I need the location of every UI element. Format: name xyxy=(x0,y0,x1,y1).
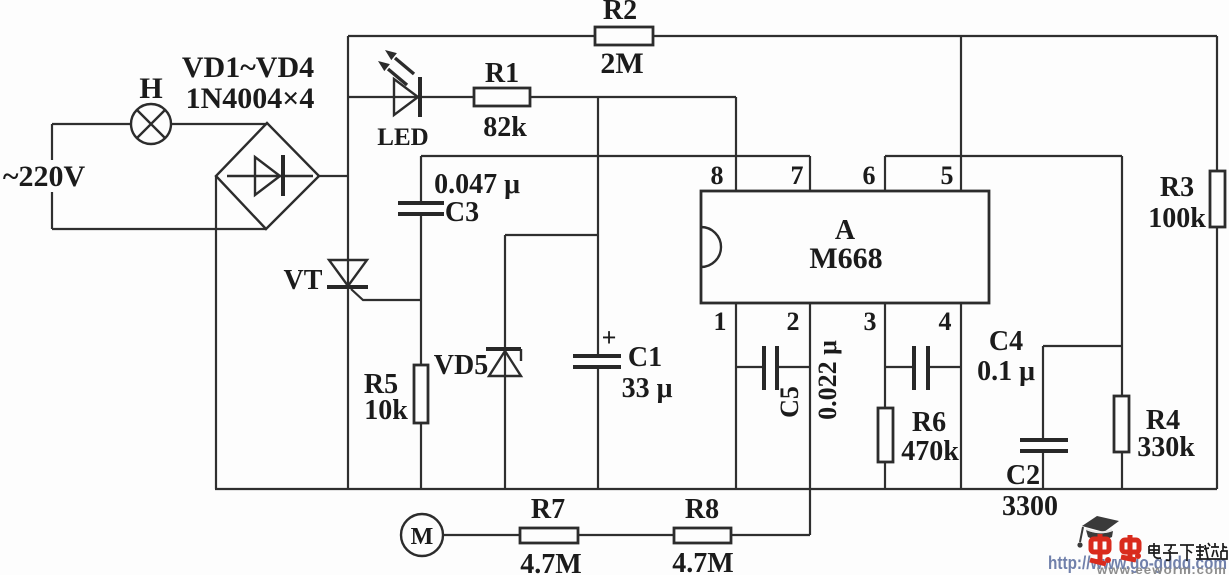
svg-text:6: 6 xyxy=(863,161,876,190)
wire pin 6 horizontal to RC timing xyxy=(885,155,1122,157)
svg-text:C3: C3 xyxy=(445,197,479,228)
resistor R8 xyxy=(674,528,731,543)
wire R4 bottom to ground bus xyxy=(1121,452,1123,489)
wire pin 2 down to sensor resistors xyxy=(809,303,811,535)
pin 6 xyxy=(863,161,876,190)
wire top bus right drop to R3 xyxy=(1216,36,1218,171)
pin 3 xyxy=(864,307,877,336)
label R7 xyxy=(531,494,565,525)
svg-text:M: M xyxy=(411,524,434,550)
svg-text:33 μ: 33 μ xyxy=(622,373,673,404)
svg-text:R3: R3 xyxy=(1160,172,1194,203)
label M xyxy=(411,524,434,550)
wire C3 node to pin 7 horizontal xyxy=(421,155,810,157)
svg-text:330k: 330k xyxy=(1137,432,1195,463)
resistor R7 xyxy=(520,528,578,543)
wire VD5 cathode link to C1 node xyxy=(505,234,598,236)
svg-text:3: 3 xyxy=(864,307,877,336)
svg-text:0.022 μ: 0.022 μ xyxy=(813,340,842,420)
wire C4 left lead xyxy=(885,366,914,368)
capacitor C4 xyxy=(914,346,928,390)
svg-text:8: 8 xyxy=(711,161,724,190)
svg-text:2M: 2M xyxy=(600,47,643,80)
wire top supply bus through R2 xyxy=(348,35,1217,37)
watermark graduation cap xyxy=(1077,516,1119,548)
label R2 xyxy=(603,0,637,26)
svg-text:1: 1 xyxy=(714,307,727,336)
label LED xyxy=(377,124,428,151)
svg-text:M668: M668 xyxy=(809,242,882,275)
zener diode VD5 xyxy=(486,349,521,376)
pin 7 xyxy=(791,161,804,190)
value 0.047u xyxy=(434,169,520,200)
pin 8 xyxy=(711,161,724,190)
svg-text:~220V: ~220V xyxy=(3,160,86,193)
capacitor C1 xyxy=(573,356,621,367)
label C3 xyxy=(445,197,479,228)
svg-text:+: + xyxy=(602,323,617,352)
value 470k xyxy=(901,436,959,467)
wire C3 bottom through R5 to ground bus xyxy=(420,215,422,489)
pin 5 xyxy=(941,161,954,190)
wire source top to lamp H xyxy=(52,123,131,125)
wire C5 right lead xyxy=(777,366,810,368)
svg-text:100k: 100k xyxy=(1148,203,1206,234)
svg-text:2: 2 xyxy=(787,307,800,336)
wire top bus drop to pin 5 xyxy=(960,36,962,191)
wire source bottom to bridge AC input bottom xyxy=(52,228,266,230)
watermark url go-gddq xyxy=(1048,553,1227,573)
svg-text:www.eeworm.com: www.eeworm.com xyxy=(1096,563,1227,575)
label VD5 xyxy=(434,350,488,381)
wire pin 7 stub xyxy=(809,156,811,191)
wire C4 right lead xyxy=(928,366,961,368)
svg-text:VD1~VD4: VD1~VD4 xyxy=(182,51,314,84)
svg-text:VD5: VD5 xyxy=(434,350,488,381)
resistor R3 xyxy=(1210,171,1225,227)
watermark site name dianzi xiazaizhan xyxy=(1149,543,1227,561)
resistor R2 xyxy=(595,27,653,45)
svg-text:4.7M: 4.7M xyxy=(520,549,581,575)
value 3300 xyxy=(1002,491,1058,522)
svg-text:0.047 μ: 0.047 μ xyxy=(434,169,520,200)
lamp H xyxy=(131,104,171,144)
svg-text:7: 7 xyxy=(791,161,804,190)
label R4 xyxy=(1146,405,1180,436)
svg-text:82k: 82k xyxy=(483,112,527,143)
svg-text:3300: 3300 xyxy=(1002,491,1058,522)
resistor R6 xyxy=(878,408,893,462)
label C1 xyxy=(628,342,662,373)
svg-text:R7: R7 xyxy=(531,494,565,525)
svg-text:R2: R2 xyxy=(603,0,637,26)
svg-text:R8: R8 xyxy=(685,494,719,525)
wire C1 minus to ground bus xyxy=(597,368,599,489)
capacitor C5 xyxy=(764,346,777,390)
value 33u xyxy=(622,373,673,404)
svg-text:R6: R6 xyxy=(912,407,946,438)
op-amp IC A M668 xyxy=(701,191,989,303)
wire R3 bottom to ground bus xyxy=(1216,227,1218,489)
wire R1 node down to pin 8 xyxy=(735,97,737,191)
wire VT gate xyxy=(351,289,421,300)
watermark chongchong character 1 xyxy=(1090,534,1111,564)
label R5 xyxy=(364,369,398,400)
wire timing node down through R4 xyxy=(1121,156,1123,396)
label C2 xyxy=(1006,460,1040,491)
wire ground bus xyxy=(215,488,1217,490)
label R1 xyxy=(485,58,519,89)
wire C5 left lead xyxy=(736,366,764,368)
svg-text:4: 4 xyxy=(939,307,952,336)
motor M sensor electrode xyxy=(401,514,443,556)
wire pin 4 to ground bus xyxy=(960,303,962,489)
svg-text:H: H xyxy=(139,72,162,105)
resistor R4 xyxy=(1114,396,1129,452)
value 2M xyxy=(600,47,643,80)
label C5 xyxy=(775,386,804,418)
wire pin 1 to ground bus xyxy=(735,303,737,489)
wire R7 to R8 xyxy=(578,534,674,536)
wire source left vertical xyxy=(51,124,53,229)
wire bridge positive output to main rail xyxy=(319,175,348,177)
label R6 xyxy=(912,407,946,438)
wire supply node down to C1 plus xyxy=(597,97,599,355)
pin 1 xyxy=(714,307,727,336)
resistor R1 xyxy=(474,88,530,106)
wire R1 output row xyxy=(530,96,736,98)
value 4.7M R8 xyxy=(672,548,733,575)
label VT xyxy=(284,265,323,296)
wire lamp H to bridge AC input top xyxy=(171,123,267,125)
wire motor M to R7 xyxy=(443,534,520,536)
svg-text:5: 5 xyxy=(941,161,954,190)
svg-text:470k: 470k xyxy=(901,436,959,467)
watermark url eeworm xyxy=(1096,563,1227,575)
wire main positive vertical rail through VT xyxy=(347,36,349,489)
pin 4 xyxy=(939,307,952,336)
wire C2 bottom to ground bus xyxy=(1042,452,1044,489)
label H xyxy=(139,72,162,105)
capacitor C3 xyxy=(398,203,444,214)
label R8 xyxy=(685,494,719,525)
resistor R5 xyxy=(414,365,428,423)
pin 2 xyxy=(787,307,800,336)
wire bridge negative output to ground bus xyxy=(215,176,217,489)
value 330k xyxy=(1137,432,1195,463)
wire pin 3 to R6 xyxy=(884,303,886,408)
capacitor C2 xyxy=(1020,440,1068,451)
value 82k xyxy=(483,112,527,143)
bridge rectifier VD1-VD4 xyxy=(216,123,319,229)
capacitor C1 polarity plus xyxy=(602,323,617,352)
svg-text:R1: R1 xyxy=(485,58,519,89)
svg-text:C5: C5 xyxy=(775,386,804,418)
value 4.7M R7 xyxy=(520,549,581,575)
svg-text:C2: C2 xyxy=(1006,460,1040,491)
svg-text:4.7M: 4.7M xyxy=(672,548,733,575)
LED indicator xyxy=(378,50,420,117)
wire C2 branch horizontal xyxy=(1043,345,1122,347)
value 1N4004x4 xyxy=(186,82,315,115)
svg-text:LED: LED xyxy=(377,124,428,151)
wire pin 6 stub xyxy=(884,156,886,191)
thyristor VT xyxy=(327,260,368,287)
node ~220V AC mains xyxy=(3,160,86,193)
wire VD5 vertical branch xyxy=(504,235,506,489)
wire C3 top lead xyxy=(420,156,422,202)
label R3 xyxy=(1160,172,1194,203)
label A xyxy=(835,215,856,246)
label C4 xyxy=(989,326,1023,357)
value M668 xyxy=(809,242,882,275)
svg-text:0.1 μ: 0.1 μ xyxy=(977,356,1035,387)
svg-text:1N4004×4: 1N4004×4 xyxy=(186,82,315,115)
svg-text:C4: C4 xyxy=(989,326,1023,357)
wire R6 bottom to ground bus xyxy=(884,462,886,489)
wire LED anode row xyxy=(348,96,474,98)
svg-text:VT: VT xyxy=(284,265,323,296)
svg-text:10k: 10k xyxy=(364,395,408,426)
wire R8 to pin 2 drop xyxy=(731,534,810,536)
value 10k xyxy=(364,395,408,426)
value 0.1u xyxy=(977,356,1035,387)
value 0.022u xyxy=(813,340,842,420)
label VD1~VD4 xyxy=(182,51,314,84)
watermark chongchong character 2 xyxy=(1121,535,1141,560)
svg-text:C1: C1 xyxy=(628,342,662,373)
value 100k xyxy=(1148,203,1206,234)
wire C2 top lead xyxy=(1042,346,1044,438)
